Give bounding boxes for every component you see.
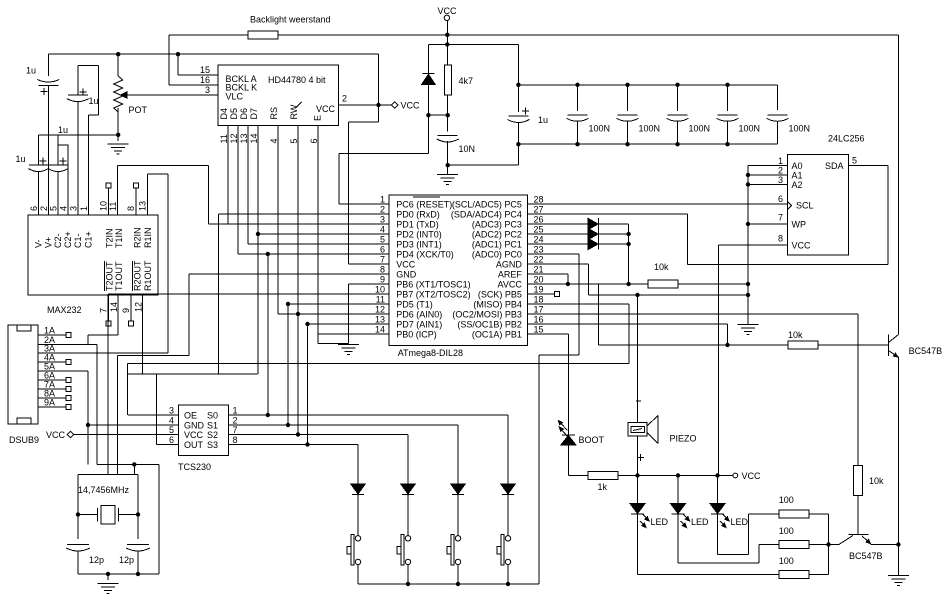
svg-text:7: 7 — [778, 213, 783, 223]
svg-text:1: 1 — [79, 206, 89, 211]
svg-text:D5: D5 — [229, 108, 239, 120]
svg-text:10k: 10k — [869, 476, 884, 486]
svg-text:7: 7 — [380, 255, 385, 265]
svg-text:100N: 100N — [589, 124, 611, 134]
svg-text:BC547B: BC547B — [909, 346, 943, 356]
svg-text:PD2 (INT0): PD2 (INT0) — [396, 230, 442, 240]
svg-text:27: 27 — [534, 205, 544, 215]
svg-text:RS: RS — [269, 107, 279, 120]
svg-text:(ADC3) PC3: (ADC3) PC3 — [472, 220, 522, 230]
svg-text:A2: A2 — [792, 180, 803, 190]
svg-text:S3: S3 — [207, 440, 218, 450]
svg-text:HD44780 4 bit: HD44780 4 bit — [268, 75, 326, 85]
svg-text:1: 1 — [778, 156, 783, 166]
svg-text:5: 5 — [169, 425, 174, 435]
svg-text:T2OUT: T2OUT — [105, 261, 115, 291]
svg-text:WP: WP — [792, 220, 807, 230]
svg-text:VCC: VCC — [742, 471, 762, 481]
svg-text:A1: A1 — [792, 171, 803, 181]
svg-text:3: 3 — [380, 215, 385, 225]
svg-text:AGND: AGND — [496, 260, 523, 270]
svg-text:PB7 (XT2/TOSC2): PB7 (XT2/TOSC2) — [396, 290, 470, 300]
svg-text:10k: 10k — [654, 262, 669, 272]
svg-text:S0: S0 — [207, 411, 218, 421]
svg-text:2: 2 — [39, 206, 49, 211]
svg-text:LED: LED — [691, 517, 709, 527]
svg-text:10: 10 — [99, 201, 109, 211]
svg-text:PIEZO: PIEZO — [670, 434, 697, 444]
svg-text:18: 18 — [534, 295, 544, 305]
svg-text:(OC1A) PB1: (OC1A) PB1 — [472, 330, 522, 340]
svg-text:1u: 1u — [16, 154, 26, 164]
svg-text:7: 7 — [99, 308, 109, 313]
svg-text:OUT: OUT — [184, 440, 204, 450]
svg-text:S2: S2 — [207, 430, 218, 440]
svg-text:4: 4 — [380, 225, 385, 235]
svg-text:(ADC2) PC2: (ADC2) PC2 — [472, 230, 522, 240]
svg-text:PD4 (XCK/T0): PD4 (XCK/T0) — [396, 250, 454, 260]
svg-text:VCC: VCC — [401, 101, 421, 111]
svg-text:VCC: VCC — [184, 430, 204, 440]
svg-text:BC547B: BC547B — [849, 551, 883, 561]
svg-text:12: 12 — [229, 133, 239, 143]
svg-text:10N: 10N — [459, 144, 476, 154]
svg-text:1u: 1u — [26, 66, 36, 76]
svg-text:PB6 (XT1/TOSC1): PB6 (XT1/TOSC1) — [396, 280, 470, 290]
svg-text:PD3 (INT1): PD3 (INT1) — [396, 240, 442, 250]
svg-text:25: 25 — [534, 225, 544, 235]
svg-text:20: 20 — [534, 275, 544, 285]
svg-text:(SCL/ADC5) PC5: (SCL/ADC5) PC5 — [452, 200, 522, 210]
svg-text:VLC: VLC — [226, 92, 244, 102]
svg-text:100: 100 — [779, 495, 794, 505]
svg-text:3: 3 — [68, 206, 78, 211]
svg-text:PB0 (ICP): PB0 (ICP) — [396, 330, 437, 340]
svg-text:12p: 12p — [119, 555, 134, 565]
svg-text:MAX232: MAX232 — [47, 305, 82, 315]
svg-text:26: 26 — [534, 215, 544, 225]
svg-text:PD7 (AIN1): PD7 (AIN1) — [396, 320, 442, 330]
svg-text:POT: POT — [129, 105, 148, 115]
svg-text:3: 3 — [778, 175, 783, 185]
svg-text:PC6 (RESET): PC6 (RESET) — [396, 200, 452, 210]
svg-text:100N: 100N — [689, 124, 711, 134]
svg-text:16: 16 — [200, 75, 210, 85]
svg-text:PD5 (T1): PD5 (T1) — [396, 300, 433, 310]
svg-text:2: 2 — [233, 416, 238, 426]
svg-text:C2-: C2- — [53, 233, 63, 248]
svg-text:8: 8 — [233, 435, 238, 445]
svg-text:AREF: AREF — [498, 270, 523, 280]
svg-text:ATmega8-DIL28: ATmega8-DIL28 — [398, 348, 463, 358]
svg-text:7: 7 — [233, 425, 238, 435]
svg-text:9A: 9A — [44, 398, 55, 408]
svg-text:6: 6 — [380, 245, 385, 255]
svg-text:VCC: VCC — [316, 104, 336, 114]
svg-text:VCC: VCC — [437, 6, 457, 16]
svg-text:10: 10 — [375, 285, 385, 295]
svg-text:10k: 10k — [788, 330, 803, 340]
svg-text:13: 13 — [239, 133, 249, 143]
svg-text:100N: 100N — [789, 124, 811, 134]
svg-text:8: 8 — [126, 206, 136, 211]
svg-text:4: 4 — [59, 206, 69, 211]
svg-text:VCC: VCC — [396, 260, 416, 270]
svg-text:2: 2 — [778, 166, 783, 176]
svg-text:BOOT: BOOT — [579, 435, 605, 445]
svg-text:28: 28 — [534, 195, 544, 205]
svg-text:5: 5 — [852, 156, 857, 166]
svg-text:12: 12 — [375, 305, 385, 315]
svg-text:TCS230: TCS230 — [178, 462, 211, 472]
svg-text:(SCK) PB5: (SCK) PB5 — [478, 290, 522, 300]
svg-text:LED: LED — [731, 517, 749, 527]
svg-text:8: 8 — [380, 265, 385, 275]
svg-text:3: 3 — [205, 85, 210, 95]
svg-text:15: 15 — [534, 325, 544, 335]
svg-text:(SS/OC1B) PB2: (SS/OC1B) PB2 — [457, 320, 522, 330]
svg-text:SDA: SDA — [825, 161, 844, 171]
svg-text:100N: 100N — [639, 124, 661, 134]
svg-text:E: E — [313, 115, 323, 121]
svg-text:R2IN: R2IN — [133, 227, 143, 248]
svg-text:(ADC1) PC1: (ADC1) PC1 — [472, 240, 522, 250]
svg-text:5: 5 — [380, 235, 385, 245]
svg-text:6: 6 — [29, 206, 39, 211]
svg-text:OE: OE — [184, 411, 197, 421]
svg-text:PD0 (RxD): PD0 (RxD) — [396, 210, 440, 220]
svg-text:PD6 (AIN0): PD6 (AIN0) — [396, 310, 442, 320]
svg-text:PD1 (TxD): PD1 (TxD) — [396, 220, 439, 230]
svg-text:R2OUT: R2OUT — [133, 260, 143, 291]
svg-text:11: 11 — [376, 295, 385, 305]
svg-text:23: 23 — [534, 245, 544, 255]
svg-text:LED: LED — [651, 517, 669, 527]
svg-text:4: 4 — [169, 416, 174, 426]
svg-text:V-: V- — [34, 239, 44, 248]
svg-text:2: 2 — [342, 94, 347, 104]
svg-text:19: 19 — [534, 285, 544, 295]
svg-text:13: 13 — [375, 315, 385, 325]
svg-text:3: 3 — [169, 406, 174, 416]
svg-text:22: 22 — [534, 255, 544, 265]
svg-text:17: 17 — [534, 305, 544, 315]
svg-text:S1: S1 — [207, 421, 218, 431]
svg-text:5: 5 — [49, 206, 59, 211]
svg-text:(SDA/ADC4) PC4: (SDA/ADC4) PC4 — [451, 210, 522, 220]
svg-text:14,7456MHz: 14,7456MHz — [78, 485, 130, 495]
svg-text:C1+: C1+ — [83, 231, 93, 248]
svg-text:(MISO) PB4: (MISO) PB4 — [473, 300, 522, 310]
svg-text:21: 21 — [534, 265, 544, 275]
svg-text:100: 100 — [779, 526, 794, 536]
svg-text:5: 5 — [289, 138, 299, 143]
svg-text:24: 24 — [534, 235, 544, 245]
svg-text:9: 9 — [380, 275, 385, 285]
svg-text:VCC: VCC — [46, 430, 66, 440]
svg-text:24LC256: 24LC256 — [828, 134, 865, 144]
svg-text:D6: D6 — [239, 108, 249, 120]
svg-text:T2IN: T2IN — [105, 228, 115, 248]
svg-text:1u: 1u — [538, 115, 548, 125]
svg-text:9: 9 — [121, 308, 131, 313]
svg-text:(ADC0) PC0: (ADC0) PC0 — [472, 250, 522, 260]
svg-text:1: 1 — [233, 406, 238, 416]
svg-text:T1OUT: T1OUT — [114, 261, 124, 291]
svg-text:11: 11 — [108, 202, 118, 211]
svg-text:D7: D7 — [249, 108, 259, 120]
svg-text:D4: D4 — [219, 108, 229, 120]
svg-text:13: 13 — [138, 201, 148, 211]
svg-text:1u: 1u — [89, 96, 99, 106]
svg-text:AVCC: AVCC — [498, 280, 523, 290]
svg-text:4k7: 4k7 — [459, 76, 474, 86]
svg-text:V+: V+ — [43, 237, 53, 248]
svg-text:2: 2 — [380, 205, 385, 215]
svg-text:1u: 1u — [58, 125, 68, 135]
svg-text:12: 12 — [134, 302, 144, 312]
svg-text:1k: 1k — [598, 482, 608, 492]
svg-text:GND: GND — [396, 270, 417, 280]
svg-text:GND: GND — [184, 421, 205, 431]
svg-text:VCC: VCC — [792, 241, 812, 251]
svg-text:15: 15 — [200, 65, 210, 75]
svg-text:C2+: C2+ — [63, 231, 73, 248]
svg-text:(OC2/MOSI) PB3: (OC2/MOSI) PB3 — [452, 310, 522, 320]
svg-text:11: 11 — [219, 134, 229, 143]
svg-text:14: 14 — [249, 133, 259, 143]
svg-text:6: 6 — [169, 435, 174, 445]
svg-text:14: 14 — [109, 302, 119, 312]
svg-text:1: 1 — [380, 195, 385, 205]
svg-text:8: 8 — [778, 234, 783, 244]
svg-text:6: 6 — [309, 138, 319, 143]
svg-text:100N: 100N — [739, 124, 761, 134]
svg-text:A0: A0 — [792, 161, 803, 171]
svg-text:R1OUT: R1OUT — [143, 260, 153, 291]
svg-text:Backlight weerstand: Backlight weerstand — [250, 15, 331, 25]
svg-text:T1IN: T1IN — [114, 228, 124, 248]
svg-text:4: 4 — [269, 138, 279, 143]
svg-text:DSUB9: DSUB9 — [9, 435, 39, 445]
svg-text:16: 16 — [534, 315, 544, 325]
svg-text:C1-: C1- — [73, 233, 83, 248]
svg-text:R1IN: R1IN — [143, 227, 153, 248]
svg-text:SCL: SCL — [796, 201, 814, 211]
svg-text:6: 6 — [778, 194, 783, 204]
svg-text:100: 100 — [779, 556, 794, 566]
svg-text:14: 14 — [375, 325, 385, 335]
svg-text:12p: 12p — [89, 555, 104, 565]
